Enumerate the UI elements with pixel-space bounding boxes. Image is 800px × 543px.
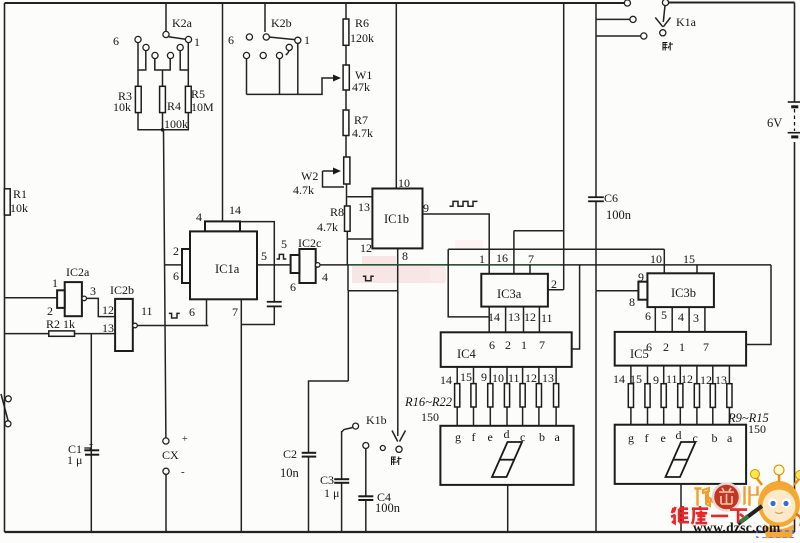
svg-text:15: 15 [683,252,695,266]
svg-text:IC1b: IC1b [384,212,409,226]
svg-text:100n: 100n [375,501,401,515]
svg-text:4.7k: 4.7k [352,126,373,140]
svg-text:6: 6 [173,269,179,283]
svg-text:3: 3 [693,311,699,325]
svg-text:C3: C3 [320,473,334,487]
svg-text:10k: 10k [113,100,131,114]
svg-text:13: 13 [102,321,114,335]
svg-text:11: 11 [508,371,520,385]
svg-text:120k: 120k [350,31,374,45]
svg-text:10: 10 [492,371,504,385]
svg-text:e: e [488,430,493,444]
svg-text:8: 8 [629,295,635,309]
svg-text:d: d [504,427,510,441]
svg-text:K1a: K1a [676,15,697,29]
svg-text:14: 14 [488,310,500,324]
svg-text:13: 13 [508,310,520,324]
svg-text:12: 12 [360,241,372,255]
svg-text:2: 2 [47,304,53,318]
svg-text:1: 1 [521,338,527,352]
svg-text:1: 1 [679,340,685,354]
svg-text:IC3a: IC3a [497,287,522,301]
svg-text:1: 1 [304,33,310,47]
svg-text:6: 6 [645,309,651,323]
svg-text:4.7k: 4.7k [317,220,338,234]
svg-text:14: 14 [229,203,241,217]
svg-text:12: 12 [524,310,536,324]
svg-text:9: 9 [653,373,659,387]
svg-text:1 μ: 1 μ [67,453,82,467]
svg-text:2: 2 [551,277,557,291]
svg-text:a: a [555,430,561,444]
svg-text:100n: 100n [606,208,632,222]
svg-text:8: 8 [402,249,408,263]
svg-text:12: 12 [102,303,114,317]
svg-text:13: 13 [715,373,727,387]
svg-text:www.dzsc.com: www.dzsc.com [693,520,781,535]
svg-text:R7: R7 [354,113,368,127]
svg-text:1 μ: 1 μ [324,486,339,500]
svg-text:6: 6 [228,33,234,47]
svg-text:R5: R5 [191,87,205,101]
svg-text:+: + [182,434,188,445]
svg-text:7: 7 [539,338,545,352]
svg-text:b: b [712,431,718,445]
svg-text:f: f [472,430,476,444]
svg-text:10: 10 [398,176,410,190]
svg-text:10: 10 [650,252,662,266]
svg-text:R2: R2 [46,317,60,331]
svg-text:IC1a: IC1a [215,262,240,276]
svg-text:b: b [539,430,545,444]
svg-text:1: 1 [52,276,58,290]
svg-text:IC3b: IC3b [671,286,696,300]
svg-text:2: 2 [173,244,179,258]
svg-text:6: 6 [113,34,119,48]
svg-text:C6: C6 [604,191,618,205]
svg-text:11: 11 [141,304,153,318]
svg-text:g: g [455,430,461,444]
svg-text:12: 12 [681,372,693,386]
svg-text:10n: 10n [280,466,300,480]
svg-text:10k: 10k [10,201,28,215]
svg-text:13: 13 [358,200,370,214]
svg-text:9: 9 [423,201,429,215]
svg-text:11: 11 [666,372,678,386]
svg-text:2: 2 [505,338,511,352]
svg-text:1k: 1k [63,317,75,331]
svg-text:R1: R1 [13,187,27,201]
svg-text:14: 14 [440,373,452,387]
svg-text:9: 9 [481,370,487,384]
svg-text:d: d [676,428,682,442]
svg-text:4: 4 [196,210,202,224]
svg-text:IC2a: IC2a [66,265,90,279]
svg-text:2: 2 [663,340,669,354]
svg-text:R6: R6 [355,16,369,30]
svg-text:12: 12 [700,373,712,387]
svg-text:a: a [727,431,733,445]
svg-text:5: 5 [281,237,287,251]
svg-text:e: e [661,431,666,445]
svg-text:CX: CX [162,448,179,462]
svg-text:15: 15 [630,372,642,386]
svg-text:7: 7 [528,252,534,266]
svg-text:R8: R8 [330,205,344,219]
svg-text:W2: W2 [301,169,318,183]
svg-text:+: + [88,440,93,450]
svg-text:10M: 10M [191,100,214,114]
svg-text:R16~R22: R16~R22 [404,395,452,409]
svg-text:14: 14 [613,372,625,386]
svg-text:IC2c: IC2c [298,236,321,250]
svg-text:IC4: IC4 [457,347,477,361]
svg-text:f: f [645,431,649,445]
svg-text:47k: 47k [352,80,370,94]
svg-text:11: 11 [541,311,553,325]
svg-text:9: 9 [638,270,644,284]
svg-text:R4: R4 [167,99,181,113]
svg-text:5: 5 [661,308,667,322]
svg-text:6V: 6V [767,116,782,130]
svg-text:4: 4 [678,310,684,324]
svg-text:C2: C2 [283,447,297,461]
svg-text:7: 7 [232,305,238,319]
svg-text:150: 150 [421,410,439,424]
svg-text:K2a: K2a [172,16,193,30]
svg-text:6: 6 [646,340,652,354]
svg-text:c: c [693,431,698,445]
svg-text:12: 12 [525,371,537,385]
svg-text:6: 6 [189,305,195,319]
svg-text:6: 6 [489,338,495,352]
svg-text:100k: 100k [164,117,188,131]
svg-text:g: g [628,431,634,445]
svg-text:4.7k: 4.7k [293,183,314,197]
svg-text:13: 13 [542,371,554,385]
svg-text:7: 7 [703,340,709,354]
svg-text:16: 16 [496,251,508,265]
svg-text:1: 1 [194,35,200,49]
svg-text:c: c [520,430,525,444]
svg-text:R9~R15: R9~R15 [727,411,769,425]
svg-text:1: 1 [479,252,485,266]
svg-text:K2b: K2b [271,16,292,30]
svg-text:K1b: K1b [366,413,387,427]
svg-text:6: 6 [290,280,296,294]
svg-text:3: 3 [90,284,96,298]
svg-text:15: 15 [460,370,472,384]
svg-text:5: 5 [261,249,267,263]
svg-text:-: - [181,466,185,478]
svg-text:4: 4 [322,270,328,284]
svg-text:IC2b: IC2b [110,283,134,297]
